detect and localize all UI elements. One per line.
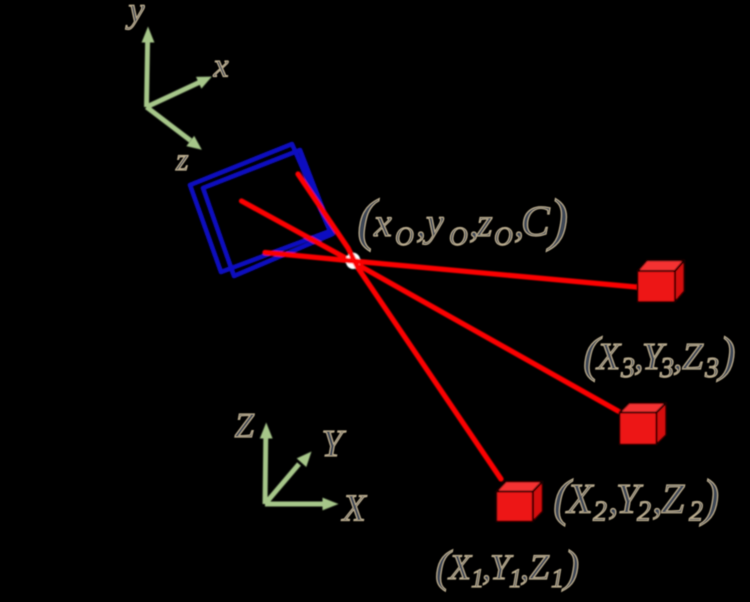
svg-text:2: 2 [689, 497, 703, 528]
image plane (blue slab), back face [190, 144, 330, 272]
svg-text:X: X [565, 477, 595, 523]
svg-text:X: X [341, 488, 368, 530]
svg-text:1: 1 [551, 564, 564, 593]
svg-text:O: O [494, 222, 513, 251]
svg-text:O: O [395, 222, 414, 251]
svg-text:,: , [520, 547, 529, 587]
svg-text:): ) [699, 470, 719, 527]
label (X1,Y1,Z1) [435, 541, 579, 594]
svg-text:3: 3 [659, 353, 674, 384]
svg-text:Z: Z [661, 477, 685, 523]
svg-text:C: C [521, 199, 551, 246]
camera axis label y [126, 0, 229, 177]
svg-text:z: z [476, 200, 493, 245]
svg-text:3: 3 [620, 353, 635, 384]
world axis Y [265, 464, 299, 504]
cube 1 (bottom) [496, 481, 542, 521]
world axis label Z [235, 406, 368, 530]
svg-text:): ) [561, 541, 579, 592]
svg-text:,: , [416, 200, 426, 245]
camera axis x [147, 83, 200, 108]
svg-text:3: 3 [704, 353, 719, 384]
svg-text:): ) [716, 326, 736, 382]
camera axis z [147, 107, 191, 141]
label (xO,yO,zO,C) at perspective center [357, 187, 568, 252]
perspective center (white node) [346, 253, 361, 269]
svg-text:z: z [175, 141, 189, 177]
svg-text:Z: Z [529, 547, 550, 587]
projection ray to cube 1 [298, 174, 501, 479]
cube 2 (middle) [620, 403, 667, 445]
svg-text:Z: Z [682, 336, 704, 378]
svg-text:x: x [213, 48, 229, 85]
world axis Z (bottom-left, green) [260, 423, 339, 511]
svg-text:2: 2 [637, 497, 651, 528]
world axis X [265, 502, 324, 507]
svg-text:X: X [447, 547, 473, 587]
svg-text:Z: Z [235, 406, 255, 445]
svg-text:y: y [126, 0, 145, 30]
svg-text:2: 2 [593, 497, 607, 528]
cube 3 (right) [638, 260, 685, 302]
label (X2,Y2,Z2) [553, 470, 719, 528]
projection ray to cube 2 [242, 201, 619, 411]
svg-text:O: O [449, 222, 468, 251]
svg-text:y: y [422, 200, 444, 245]
svg-text:): ) [546, 187, 568, 252]
projection ray to cube 3 [265, 253, 636, 288]
svg-text:x: x [373, 200, 392, 245]
camera axis y (top-left, green) [142, 27, 212, 150]
label (X3,Y3,Z3) [583, 326, 736, 384]
image plane front face [203, 150, 333, 276]
svg-text:X: X [595, 336, 622, 378]
